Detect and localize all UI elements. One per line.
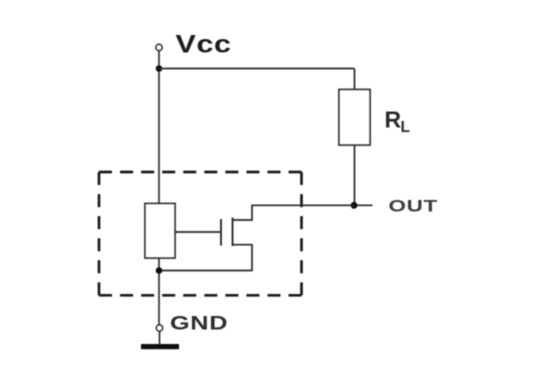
wire gate from sensor to MOSFET gate	[175, 231, 221, 233]
wire GND terminal to ground bar	[159, 331, 161, 344]
resistor RL body	[339, 90, 370, 146]
node junction at source return	[156, 267, 163, 274]
wire vertical from RL bottom to OUT node	[354, 145, 356, 205]
label RL	[385, 107, 410, 137]
wire top horizontal from junction to RL branch	[159, 68, 355, 70]
ground bar symbol	[141, 344, 179, 349]
svg-text:L: L	[401, 119, 410, 136]
terminal Vcc (open circle)	[156, 44, 162, 50]
terminal GND (open circle)	[156, 325, 162, 331]
sensor element body (rectangle inside box)	[145, 204, 175, 259]
node OUT	[351, 202, 358, 209]
transistor channel bar	[232, 218, 234, 247]
transistor gate bar	[220, 219, 222, 246]
dashed enclosure box	[99, 172, 302, 295]
wire OUT stub to the right of node	[355, 204, 373, 206]
node junction at Vcc rail	[156, 65, 163, 72]
wire Vcc vertical from terminal down into dashed box to sensor top	[158, 50, 160, 204]
svg-text:Vcc: Vcc	[176, 30, 232, 58]
svg-text:GND: GND	[170, 312, 228, 333]
wire source: channel down and left to junction	[159, 245, 252, 271]
wire vertical into RL top	[354, 69, 356, 91]
wire sensor bottom down through box to GND terminal	[158, 258, 160, 325]
svg-text:R: R	[385, 107, 402, 133]
wire drain: channel up and right to OUT	[233, 205, 355, 220]
svg-text:OUT: OUT	[389, 197, 438, 216]
